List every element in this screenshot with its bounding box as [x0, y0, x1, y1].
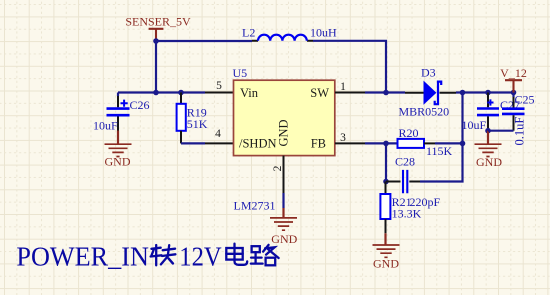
- svg-text:FB: FB: [311, 137, 326, 151]
- svg-text:51K: 51K: [187, 117, 208, 131]
- svg-text:GND: GND: [105, 155, 131, 169]
- svg-text:12V: 12V: [179, 242, 222, 272]
- ground under C26: [105, 131, 132, 169]
- svg-text:0.1uF: 0.1uF: [513, 117, 527, 146]
- junction FB / C28 / R21: [383, 179, 389, 185]
- svg-text:LM2731: LM2731: [234, 199, 276, 213]
- svg-text:10uH: 10uH: [310, 26, 337, 40]
- resistor R20: [398, 139, 436, 148]
- junction C25 top: [511, 90, 517, 96]
- svg-text:115K: 115K: [426, 144, 453, 158]
- capacitor C26: [107, 93, 130, 131]
- capacitor C25: [502, 93, 525, 131]
- svg-text:C25: C25: [515, 93, 535, 107]
- title hanzi dian: [226, 244, 247, 265]
- wire R19 bottom to pin 4: [181, 142, 205, 144]
- svg-text:D3: D3: [421, 65, 436, 79]
- svg-text:GND: GND: [271, 232, 297, 246]
- svg-text:5: 5: [216, 80, 222, 92]
- svg-text:U5: U5: [233, 66, 248, 80]
- svg-text:C26: C26: [130, 98, 150, 112]
- svg-text:/SHDN: /SHDN: [239, 137, 277, 151]
- wire SENSER_5V node down to Vin rail: [155, 41, 157, 93]
- pin 1 SW: [335, 92, 365, 94]
- capacitor C27: [477, 93, 499, 131]
- power port V_12: [500, 66, 527, 93]
- junction Vin rail / SENSER drop: [153, 90, 159, 96]
- power port SENSER_5V: [125, 15, 191, 42]
- svg-text:MBR0520: MBR0520: [399, 105, 450, 119]
- svg-text:GND: GND: [277, 119, 291, 146]
- svg-text:Vin: Vin: [240, 86, 259, 100]
- svg-text:10uF: 10uF: [93, 119, 118, 133]
- junction R20 / output branch: [460, 141, 466, 147]
- junction C27 bottom / C25 return: [485, 128, 491, 134]
- svg-text:L2: L2: [242, 26, 255, 40]
- resistor R19: [177, 93, 186, 144]
- wire C25 bottom to C27 bottom node: [488, 130, 514, 132]
- ground under C27: [475, 131, 503, 169]
- junction FB / R19 branch: [383, 141, 389, 147]
- junction diode output: [460, 90, 466, 96]
- pin 2 GND: [283, 156, 285, 193]
- svg-text:2: 2: [272, 165, 284, 171]
- svg-text:10uF: 10uF: [462, 118, 487, 132]
- svg-text:V_12: V_12: [500, 66, 527, 80]
- svg-text:R20: R20: [399, 126, 419, 140]
- svg-text:GND: GND: [476, 155, 502, 169]
- ground under R21: [373, 233, 400, 270]
- wire from SENSER_5V node to L2: [156, 40, 252, 42]
- inductor L2: [252, 35, 313, 41]
- junction at SENSER_5V node: [153, 38, 159, 44]
- svg-text:1: 1: [340, 81, 346, 93]
- wire FB net: [365, 142, 397, 144]
- title hanzi lu: [251, 245, 279, 265]
- junction C27 top: [485, 90, 491, 96]
- svg-text:3: 3: [340, 132, 346, 144]
- wire Vin rail: [118, 91, 205, 93]
- diode D3: [405, 81, 456, 105]
- pin 5 Vin: [205, 92, 234, 94]
- wire R20 right to output branch: [435, 142, 463, 144]
- wire FB node down to C28/R21: [385, 143, 387, 181]
- title hanzi zhuan: [151, 245, 176, 265]
- IC U5 body: [234, 80, 335, 155]
- wire SW to diode anode: [365, 91, 405, 93]
- junction Vin rail / R19 top: [178, 90, 184, 96]
- wire L2 to SW corner: [313, 41, 386, 93]
- junction SW / L2 drop: [383, 90, 389, 96]
- svg-text:SENSER_5V: SENSER_5V: [125, 15, 191, 29]
- wire pin 2 to ground: [282, 193, 284, 208]
- pin 4 /SHDN: [205, 142, 234, 144]
- svg-text:4: 4: [215, 128, 221, 140]
- resistor R21: [380, 182, 390, 234]
- svg-text:C28: C28: [395, 155, 415, 169]
- svg-text:POWER_IN: POWER_IN: [16, 242, 149, 272]
- svg-text:GND: GND: [373, 257, 399, 271]
- wire output branch down to C28: [420, 93, 463, 182]
- wire diode cathode to V_12 rail: [456, 91, 514, 93]
- pin 3 FB: [335, 142, 365, 144]
- ground under pin 2: [270, 208, 298, 246]
- svg-text:13.3K: 13.3K: [392, 207, 422, 221]
- svg-text:SW: SW: [310, 86, 329, 100]
- capacitor C28: [386, 170, 420, 193]
